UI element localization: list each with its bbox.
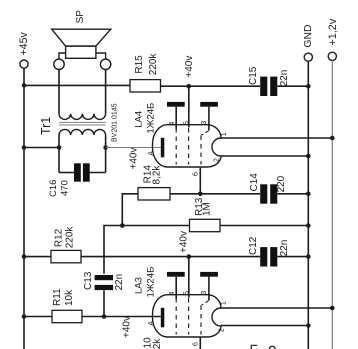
wire speaker right stub <box>96 53 106 59</box>
capacitor C15 <box>260 77 277 96</box>
svg-text:+45v: +45v <box>18 32 30 56</box>
terminal GND <box>304 53 312 61</box>
svg-text:220k: 220k <box>148 53 159 76</box>
svg-text:2k: 2k <box>152 338 163 349</box>
capacitor C12 <box>260 247 277 266</box>
wire screen lead lower <box>188 257 190 298</box>
node Tr1 left <box>57 145 62 150</box>
svg-text:+1,2v: +1,2v <box>327 18 339 45</box>
grid 1 dashed <box>175 128 177 165</box>
wire pin1 upper to +1,2v <box>221 137 332 139</box>
node +40v upper <box>187 84 192 89</box>
svg-text:C16: C16 <box>48 180 59 197</box>
wire R11 to anode LA3 <box>82 316 161 318</box>
transformer Tr1 primary winding <box>59 129 106 135</box>
svg-text:A: A <box>148 151 155 156</box>
node C13 anode <box>102 314 107 319</box>
wire C12 to GND rail <box>277 256 308 258</box>
svg-text:1: 1 <box>221 301 228 305</box>
resistor R14 <box>138 188 170 200</box>
node pin2 upper <box>306 154 311 159</box>
svg-text:1Ж24Б: 1Ж24Б <box>145 267 156 298</box>
wire Tr1 primary left leg <box>58 135 60 173</box>
electrode bar pin3 <box>200 102 218 107</box>
svg-text:+40v: +40v <box>179 231 190 253</box>
wire R15 to node +40v <box>161 85 261 87</box>
wire R13 corner from C13 <box>104 226 122 274</box>
svg-text:Tr1: Tr1 <box>39 117 53 135</box>
wire R14 corner <box>122 194 138 226</box>
node Tr1 right <box>103 145 108 150</box>
node pin2 lower <box>306 323 311 328</box>
grid 3 dashed <box>200 136 202 165</box>
resistor R15 <box>130 80 161 92</box>
wire pin3 lead <box>208 107 210 131</box>
terminal +1,2v <box>328 52 336 60</box>
terminal +45v <box>20 60 28 68</box>
wire pin2 lower to GND <box>221 325 308 327</box>
node +40v lower <box>187 254 192 259</box>
tube U LA4 <box>148 102 221 176</box>
svg-text:2: 2 <box>218 328 225 332</box>
wire left +45v rail <box>23 86 25 349</box>
transformer Tr1 secondary winding <box>59 114 106 120</box>
tube envelope <box>153 125 222 167</box>
anode bar <box>161 138 165 158</box>
svg-text:470: 470 <box>60 180 71 196</box>
node GND C14 <box>306 192 311 197</box>
grid 3 diagonal dash <box>202 131 209 135</box>
node rail Tr1 <box>22 145 27 150</box>
transformer Tr1 core <box>59 121 106 123</box>
svg-text:220: 220 <box>276 175 287 192</box>
node pin1 upper <box>330 136 335 141</box>
node GND rail C15 <box>306 84 311 89</box>
capacitor C16 <box>74 163 90 181</box>
grid 2 dashed <box>188 128 190 165</box>
svg-text:GND: GND <box>303 25 314 48</box>
capacitor C14 <box>260 184 277 203</box>
svg-text:1Ж24Б: 1Ж24Б <box>145 103 156 134</box>
svg-text:LA3: LA3 <box>134 277 145 294</box>
node junction +45v top wire <box>22 83 27 88</box>
wire speaker left stub <box>59 53 66 59</box>
wire R12 to node +40v lower <box>81 256 260 258</box>
wire rail to R11 <box>24 316 52 318</box>
svg-text:R11: R11 <box>52 288 63 306</box>
node R13 left <box>120 223 125 228</box>
speaker SP driver <box>66 46 96 58</box>
svg-text:2: 2 <box>214 158 221 162</box>
svg-text:4: 4 <box>169 122 176 126</box>
svg-text:220k: 220k <box>65 226 76 249</box>
svg-text:1: 1 <box>221 132 228 136</box>
wire pin1 lower to +1,2v <box>221 307 332 309</box>
speaker terminal right <box>100 59 110 69</box>
wire C15 to GND rail <box>277 85 308 87</box>
svg-text:BV201 0145: BV201 0145 <box>112 103 119 142</box>
node pin1 lower <box>330 306 335 311</box>
svg-text:C14: C14 <box>249 173 260 192</box>
cut glyph 1 bottom <box>251 345 257 349</box>
svg-text:R12: R12 <box>54 228 65 247</box>
svg-text:22n: 22n <box>279 240 290 257</box>
wire R14 to C14 <box>170 193 260 195</box>
wire pin6 upper lead <box>199 167 201 194</box>
svg-text:3: 3 <box>201 121 208 125</box>
svg-text:LA4: LA4 <box>134 111 145 128</box>
cut glyph 2 bottom <box>269 346 275 349</box>
wire screen lead upper <box>188 86 190 127</box>
resistor R11 <box>52 310 82 322</box>
wire node to R13 <box>122 225 189 227</box>
svg-text:6: 6 <box>192 172 199 176</box>
tube U LA3 <box>148 272 221 346</box>
svg-text:1M: 1M <box>202 202 213 216</box>
node grid wire <box>198 192 203 197</box>
wire C14 to GND rail <box>277 193 308 195</box>
wire pin6 lower lead <box>199 337 201 349</box>
electrode bar pin4 <box>167 102 185 107</box>
speaker terminal left <box>54 59 64 69</box>
svg-text:8,2k: 8,2k <box>152 165 163 185</box>
wire +1,2v rail <box>331 60 333 349</box>
wire Tr1 to anode LA4 <box>106 147 161 149</box>
wire rail to Tr1 <box>24 147 59 149</box>
resistor R12 <box>51 250 81 262</box>
svg-text:+40v: +40v <box>122 316 133 338</box>
node GND C12 <box>306 254 311 259</box>
wire GND rail <box>307 61 309 349</box>
svg-text:+40v: +40v <box>129 148 140 170</box>
wire C16 left stub <box>59 172 74 174</box>
svg-text:SP: SP <box>75 10 86 24</box>
node rail R12 <box>22 254 27 259</box>
svg-text:+40v: +40v <box>184 56 195 78</box>
wire +45v terminal stem <box>23 68 25 85</box>
node rail R11 <box>22 314 27 319</box>
svg-text:5: 5 <box>184 121 191 125</box>
wire rail to R12 <box>24 256 51 258</box>
svg-text:22n: 22n <box>279 70 290 87</box>
wire speaker right lead <box>105 70 107 114</box>
speaker SP horn <box>52 29 111 46</box>
wire R13 to GND rail <box>220 225 308 227</box>
wire pin4 lead <box>175 107 177 129</box>
svg-text:R15: R15 <box>134 55 145 74</box>
svg-text:10k: 10k <box>64 289 75 306</box>
resistor R13 <box>190 219 221 231</box>
svg-text:22n: 22n <box>114 274 125 291</box>
capacitor C13 <box>95 275 114 290</box>
wire Tr1 primary right leg <box>105 135 107 173</box>
wire speaker left lead <box>58 70 60 114</box>
svg-text:C12: C12 <box>248 236 259 255</box>
wire +45v to R15 <box>24 84 130 86</box>
svg-text:C15: C15 <box>248 66 259 85</box>
wire C13 to anode wire <box>103 290 105 316</box>
wire C16 right stub <box>90 172 106 174</box>
svg-text:C13: C13 <box>83 271 94 290</box>
wire pin2 upper to GND <box>221 155 308 157</box>
node GND R13 <box>306 223 311 228</box>
